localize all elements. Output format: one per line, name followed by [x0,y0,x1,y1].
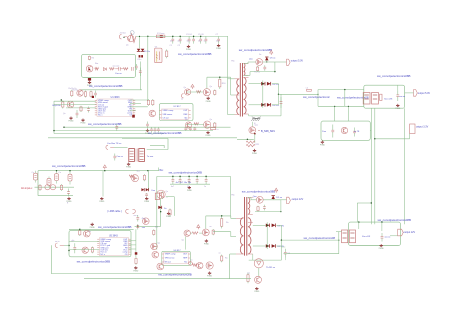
diode D14 [272,224,276,228]
junction bus [172,36,173,37]
transformer T1 core [239,63,241,117]
wire rail2 corner [230,176,232,216]
svg-text:output 5.0V: output 5.0V [291,59,304,62]
connector J1 [119,35,121,39]
svg-text:Xxx xXX: Xxx xXX [362,236,371,238]
svg-text:PGND: PGND [69,121,75,123]
svg-text:10n: 10n [187,40,190,42]
junction q11 [254,133,256,135]
connector J3 [106,145,108,149]
svg-text:output 12V: output 12V [404,231,416,234]
diode D4 [103,68,106,71]
svg-text:sw_convdpelectronics08B: sw_convdpelectronics08B [148,131,181,135]
diode D8 [261,103,265,107]
diode D2 [141,49,145,52]
power flag m7 [197,227,199,229]
capacitor C18 [157,127,159,129]
capacitor C7 [218,36,220,39]
svg-text:Rx Rx: Rx Rx [73,90,78,92]
svg-text:xx: xx [219,253,221,255]
capacitor C15 [116,124,118,127]
ground J [397,104,399,106]
resistor R33 [135,258,137,263]
transformer T3 [129,149,135,162]
ground m13 [380,244,382,246]
earth ground sec [252,117,256,119]
svg-text:Rxx: Rxx [95,63,98,65]
diode D12 [272,196,275,199]
wire out2 bus [276,224,281,226]
capacitor CX1 [35,171,37,174]
resistor R34 [153,230,155,234]
svg-text:PGND: PGND [133,270,139,272]
wire step left [357,202,371,204]
capacitor C28 [196,176,198,179]
wire drain up ch2 [205,216,207,229]
part RB1 [155,193,159,199]
ground m12 [209,272,211,274]
transistor Q8 [185,122,191,128]
svg-text:Tx aux: Tx aux [147,156,154,158]
svg-text:1u: 1u [204,186,206,188]
junction rail2 [172,176,173,177]
mosfet Q18 [256,196,263,203]
wire u5 right rows [129,240,136,242]
transistor Q4 [67,101,74,108]
part R28 [247,275,249,282]
svg-text:PGND: PGND [144,201,150,203]
svg-text:Lx: Lx [217,129,219,131]
svg-text:xx 78: xx 78 [354,131,360,133]
wire m13 port [390,235,398,237]
svg-text:VREF comp: VREF comp [163,110,175,112]
svg-text:sw_convdpelectronics08B: sw_convdpelectronics08B [169,171,202,175]
mosfet Q21 [206,262,213,269]
ground box [89,81,91,83]
wire output1 [279,93,319,95]
junction m2 [137,225,139,227]
ground K [321,141,323,143]
capacitor C1 [172,36,174,39]
svg-text:AC-input-x: AC-input-x [21,187,33,190]
ground m6b [135,266,137,268]
part R22 [143,175,145,180]
transistor Q3 [77,90,83,96]
svg-text:U3: U3 [155,47,157,49]
wire rail130 [54,130,213,132]
fuse F1 [156,35,165,38]
diode D15 [266,244,270,248]
part R18 [214,123,216,127]
IC U6 [164,252,189,263]
svg-text:Qx: Qx [184,87,186,89]
svg-text:2n2: 2n2 [216,40,219,42]
svg-text:Qx: Qx [185,119,187,121]
svg-text:CS out: CS out [163,117,170,120]
part m7r [212,230,214,234]
junction m7 [214,231,215,232]
svg-text:D1 xx: D1 xx [276,197,282,199]
group box outfilter1 [364,85,405,108]
wire q16 down [184,237,186,250]
svg-text:sw_convdpelectronics08B: sw_convdpelectronics08B [89,84,122,88]
part L3 [211,128,216,130]
wire m13 left [336,231,342,233]
svg-text:PGND: PGND [90,227,96,229]
part small m12 [189,262,193,266]
svg-text:PGND: PGND [206,135,212,137]
svg-text:output 3.3V: output 3.3V [416,126,429,129]
capacitor C6 [205,36,207,39]
part extra top1 [95,91,97,94]
part C22 [114,154,116,157]
wire r2021 [237,138,254,140]
resistor R6 [71,91,73,96]
svg-text:PGND: PGND [99,201,105,203]
svg-text:PGND: PGND [186,49,192,51]
svg-text:4n7: 4n7 [170,40,173,42]
svg-text:PGND: PGND [81,123,87,125]
svg-text:4u7 4u7 10u 10u: 4u7 4u7 10u 10u [176,182,192,184]
svg-text:Cxx xx: Cxx xx [117,156,124,158]
transistor Q20 [197,262,203,268]
junction dark m6 [135,252,138,255]
svg-text:sw_convdpelectronics08B: sw_convdpelectronics08B [178,52,211,56]
ground fb [256,287,258,289]
wire u5 left rows [69,241,99,243]
svg-text:4n7: 4n7 [178,40,181,42]
group box out2 [349,222,401,245]
wire ac left vert [37,171,39,196]
wire J feed vert2 [344,90,346,107]
svg-text:TRx: TRx [231,61,235,63]
transistor QK [341,127,347,133]
transformer T2 core [244,197,246,256]
part C30 [263,205,265,207]
wire j3 [114,146,128,148]
wire m6 right [135,229,137,252]
part R15 [214,91,216,95]
T2 secondary winding [248,218,251,254]
resistor R12 [147,100,149,104]
transistor Q1 [127,34,137,43]
part C9 [139,68,141,71]
svg-text:C3 C4: C3 C4 [186,34,193,36]
resistor R24 [221,219,223,227]
gate net label [258,130,260,132]
ground C7 [218,44,220,46]
connector J2 [181,94,183,98]
wire out bus [272,83,279,85]
svg-text:xxx xx: xxx xx [399,96,406,98]
svg-text:Qx: Qx [210,119,212,121]
svg-text:U6 817: U6 817 [174,250,182,252]
svg-text:xxx x: xxx x [134,215,139,217]
port output m13 [398,229,404,236]
wire drv1 [186,91,203,93]
filter fets [363,93,370,105]
input part J4 [55,243,57,248]
wire t1 sec stub down [248,114,250,116]
part C19 [264,65,266,67]
port output2 [287,197,291,203]
svg-text:VREF comp: VREF comp [165,254,177,256]
mosfet Q17 [202,229,209,236]
svg-text:sw_convdpelectronics08B: sw_convdpelectronics08B [77,259,110,263]
part C12 [88,107,90,109]
svg-text:PGND: PGND [216,48,222,50]
wire rail2 bot [170,183,210,185]
diode DK [332,125,334,131]
wire sec2 bot [255,211,281,213]
wire bus273 [51,273,190,275]
transistor Q22 [84,230,91,237]
svg-text:( t-088 cable ): ( t-088 cable ) [107,210,122,213]
wire bottom rail [249,115,281,117]
mosfet Q7 [203,89,210,96]
svg-text:sw_convdpelectronics08: sw_convdpelectronics08 [304,236,336,240]
svg-text:sw_convdpelectronics08B: sw_convdpelectronics08B [378,218,411,222]
svg-text:TL431 xx: TL431 xx [266,267,276,269]
long vertical rail A [370,108,372,224]
capacitor C20 [280,97,282,102]
capacitor C21 [397,90,399,95]
svg-text:VFB sense: VFB sense [163,114,174,116]
wire opto drop [147,36,149,101]
svg-text:Rx: Rx [89,231,91,233]
ground bus1 [188,45,190,47]
wire diode drop [139,36,141,48]
wire row3 [66,107,96,109]
wire m6 top [69,228,134,230]
wire rect2 stubs [253,224,266,226]
svg-text:D8 1N: D8 1N [273,105,280,107]
resistor R26 [192,232,198,234]
svg-text:xxx: xxx [247,273,250,275]
transistor Q5 [149,110,156,117]
wire t2 tap [214,231,231,233]
capacitor C32 [74,243,76,247]
mosfet Q11 [249,127,256,134]
no-connect bubble Q1 [130,31,134,35]
ground t3 [128,163,130,165]
part D3 [135,64,137,66]
wire rail133 [54,133,164,135]
wire top row [80,89,142,91]
ground rail2 [188,186,190,188]
svg-text:Dx: Dx [259,54,261,56]
T2 stubs [236,217,243,219]
mosfet Q10 [256,59,263,66]
junction diamond [132,115,135,118]
resistor R30 [221,256,223,261]
wire J feed bot [318,105,364,107]
wire U1 right rows [130,99,148,101]
wire bot rail2 [249,259,282,261]
capacitor C36 [194,126,196,129]
wire rect vert [262,81,264,108]
resistor R20 [246,141,255,143]
wire row2 [54,104,96,106]
long vertical rail C [404,108,406,224]
capacitor C26 [179,176,181,179]
svg-text:PGND: PGND [254,291,260,293]
diode D11 [158,206,161,209]
wire m13 top [358,221,359,222]
resistor R32 [91,248,93,252]
svg-text:output 5.0V: output 5.0V [418,92,431,95]
wire aux2 [244,74,250,76]
transistor Q25 [152,251,159,258]
capacitor C3 [188,36,190,39]
svg-text:F1 fuse: F1 fuse [157,33,165,35]
T1 stubs [235,78,240,80]
resistor R21 [246,144,255,146]
wire ac rail1 [38,170,159,172]
svg-text:PGND: PGND [320,145,326,147]
part RB2 [161,193,163,198]
tl431 U7 [254,259,263,268]
wire sec2 [263,199,281,201]
svg-text:D1 Dx: D1 Dx [144,51,151,53]
IC U2 [162,109,189,119]
wire aux21 [248,197,251,199]
svg-text:NC x: NC x [100,254,104,256]
svg-text:xx: xx [210,226,212,228]
wire row1 [54,100,96,102]
capacitor C14 [147,122,149,125]
T2 aux winding [248,198,250,215]
wire J feed vert1 [317,90,319,107]
capacitor C5 [200,36,202,39]
svg-text:PGND: PGND [206,101,212,103]
wire drv2 [186,124,204,126]
capacitor C17 [154,127,156,129]
part CK [354,128,356,132]
svg-text:Qx: Qx [158,243,160,245]
svg-text:sw_convdpelectronics08B: sw_convdpelectronics08B [242,189,275,193]
svg-text:Cx: Cx [59,172,61,174]
svg-text:xxx xx: xxx xx [385,237,392,239]
svg-text:U2 817: U2 817 [174,106,182,108]
diode D7 [267,82,271,86]
transistor Q19 [255,276,262,283]
svg-text:Qx: Qx [210,86,212,88]
resistor R17 [194,123,199,125]
wire bus278 [84,278,251,280]
wires U-turns [122,138,168,140]
wire left vert ch2 [156,176,158,249]
svg-text:PGND: PGND [166,216,172,218]
resistor R13 [152,100,154,104]
capacitor C29 [205,176,207,179]
part CY1 [68,189,70,192]
junction ac [56,170,57,171]
svg-text:PGND: PGND [252,153,258,155]
svg-text:Cxx xx: Cxx xx [115,73,122,75]
wire K feeds [334,106,336,121]
diode D16 [272,244,276,248]
filter fets 2 [342,230,348,243]
svg-text:D6 1N: D6 1N [278,225,285,227]
IC U5 [99,238,128,256]
svg-text:sw_convdpelectronics08B: sw_convdpelectronics08B [52,164,85,168]
wire q11 down [254,134,256,143]
junction m6 [68,245,69,246]
ground U1b [82,119,84,121]
T1 secondary winding [244,78,246,115]
svg-text:J1 line: J1 line [120,33,127,35]
ground q11 [254,149,256,151]
wire q13 down [160,199,162,227]
capacitor C27 [188,176,190,179]
power flag sec1 [270,53,272,55]
wire ac rail3 [38,195,73,197]
ground m7 [205,239,207,241]
svg-text:sw_convdpelectronics08B: sw_convdpelectronics08B [239,48,272,52]
capacitor C10 [118,67,120,71]
svg-text:NC x: NC x [98,115,102,117]
svg-text:xxx: xxx [155,226,158,228]
svg-text:sw_convdpelectronics08B: sw_convdpelectronics08B [377,74,410,78]
svg-text:4u7: 4u7 [171,186,174,188]
ground m2b [101,197,103,199]
svg-text:Xxx xXX: Xxx xXX [384,99,393,101]
svg-text:D5 xx: D5 xx [270,57,276,59]
port output K [410,124,415,134]
wire rail127 [64,126,231,128]
ground m6 top [91,223,93,225]
transistor Q26 [157,263,164,270]
T1 primary winding [237,79,239,115]
choke L1a [45,185,50,190]
resistor R31 [79,231,81,235]
svg-text:Rx: Rx [225,258,227,260]
svg-text:PGND: PGND [395,108,401,110]
part CX3 [56,171,58,174]
svg-text:U5 3843: U5 3843 [109,236,118,238]
resistor R5 [123,68,128,70]
svg-text:U1 3843: U1 3843 [111,97,120,99]
wire t3 gnd vert [102,171,104,197]
capacitor C4 [193,36,195,39]
ground U1a [70,117,72,119]
capacitor C25 [172,176,174,179]
svg-text:PGND: PGND [126,167,132,169]
wire J feed top [318,89,364,91]
resistor R29 [193,264,198,266]
wire m7 [190,232,192,234]
wire fb [258,268,260,276]
resistor R8 [90,92,92,96]
ground m5 [168,212,170,214]
wire sec1 bot [255,71,275,73]
wire prim vert2 [227,36,229,114]
resistor R7 [84,92,86,96]
svg-text:C8 x: C8 x [137,59,141,61]
svg-text:Qx: Qx [164,261,166,263]
svg-text:sw_convdpelectronic: sw_convdpelectronic [303,95,330,99]
diode D9 [267,103,271,107]
svg-text:sw_convdpelectronics08B: sw_convdpelectronics08B [158,273,191,277]
svg-text:PGND: PGND [379,248,385,250]
svg-text:10u: 10u [187,186,190,188]
transistor Q23 [82,247,88,253]
resistor R16 [219,79,221,87]
wire prim vert [230,77,232,95]
svg-text:10n: 10n [198,40,201,42]
long vertical rail B [374,108,376,224]
